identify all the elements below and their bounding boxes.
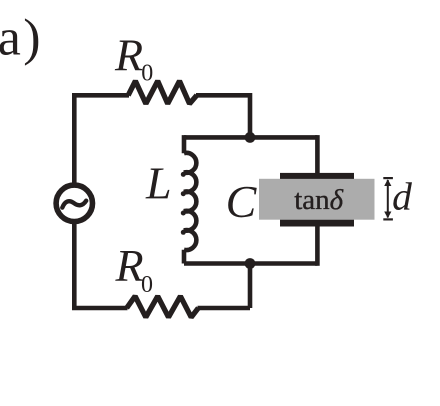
dimension arrow d: top cap: [383, 177, 393, 179]
capacitor C: top lead: [315, 135, 320, 175]
svg-text:a): a): [0, 9, 41, 66]
inductor L: coil 5 bumps: [184, 153, 196, 250]
capacitor C: bottom lead: [315, 225, 320, 266]
inductor L: cusp tabs: [181, 172, 186, 235]
node: bottom junction dot: [245, 258, 256, 269]
capacitor C: bottom plate: [280, 220, 354, 227]
wire: bottom right horizontal: [198, 306, 251, 311]
resistor R0 (top): [128, 81, 197, 104]
wire: inner top rail: [184, 135, 317, 140]
AC source: circle: [56, 185, 92, 221]
svg-text:R: R: [114, 30, 143, 81]
svg-text:d: d: [392, 175, 412, 219]
dimension arrow d: bottom cap: [383, 218, 393, 220]
dimension arrow d: top arrowhead: [384, 179, 391, 186]
capacitor C: dielectric gray slab: [259, 179, 375, 220]
svg-text:L: L: [145, 158, 172, 209]
wire: bottom left horizontal: [72, 306, 128, 311]
svg-text:R: R: [115, 240, 144, 291]
svg-text:0: 0: [141, 272, 153, 298]
svg-text:C: C: [226, 176, 258, 227]
wire: inner bottom rail: [184, 261, 317, 266]
resistor R0 (bottom): [127, 296, 199, 317]
capacitor C: top plate: [280, 173, 354, 179]
dimension arrow d: vertical line: [387, 180, 389, 218]
dimension arrow d: bottom arrowhead: [384, 212, 391, 219]
node: top junction dot: [245, 132, 256, 143]
wire: top right horizontal from R0 to stub: [196, 93, 250, 98]
inductor L: vertical leads: [182, 135, 187, 263]
wire: top left horizontal to R0: [72, 93, 129, 98]
wire: outer left vertical (source branch): [72, 95, 77, 308]
wire: right stub from bottom junction down: [248, 264, 253, 309]
AC source: tilde: [62, 201, 86, 208]
wire: right stub down to top junction: [248, 93, 253, 137]
svg-text:tanδ: tanδ: [294, 184, 343, 216]
svg-text:0: 0: [141, 61, 153, 87]
